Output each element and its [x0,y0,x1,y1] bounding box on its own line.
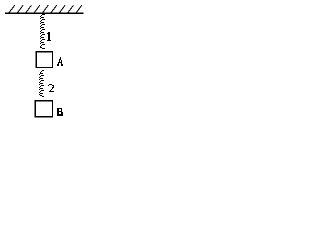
spring 2 [39,70,44,97]
label B [57,108,63,116]
spring 1 [40,14,45,49]
label 1 [47,32,51,41]
ceiling hatching [9,5,82,13]
block B [35,101,52,117]
label A [57,57,63,66]
ceiling line [5,12,84,14]
block A [36,52,52,68]
label 2 [48,84,54,92]
